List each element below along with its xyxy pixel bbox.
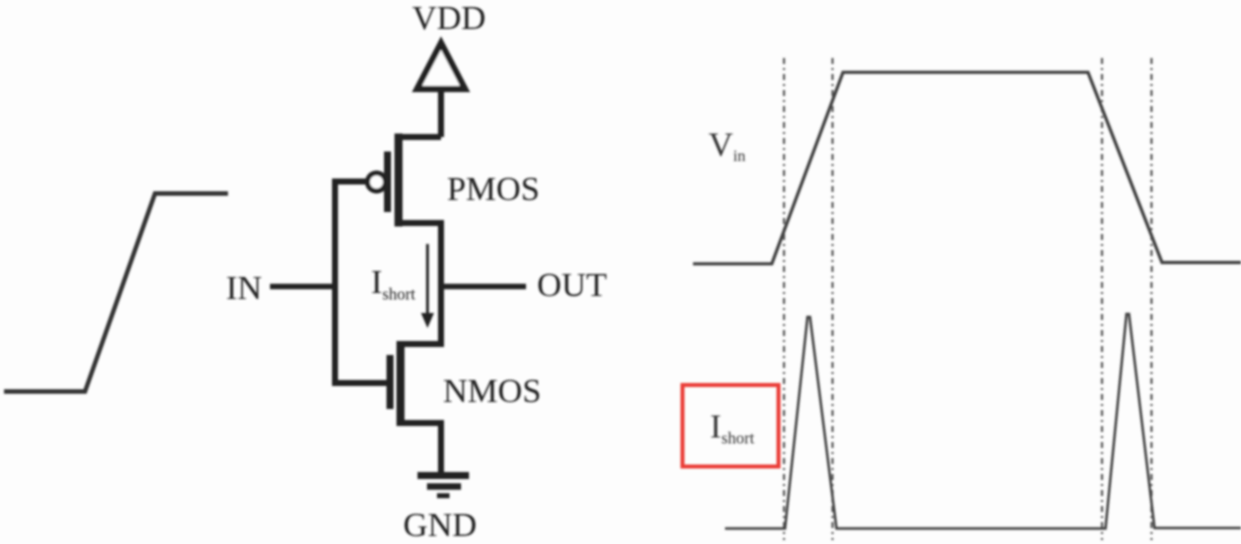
label I_short (waveform)	[710, 409, 755, 448]
wire: gate bus (PMOS gate to NMOS gate)	[335, 182, 387, 384]
transistor U2 NMOS: drain/channel/source	[401, 341, 442, 474]
wire OUT	[444, 284, 526, 290]
transistor U2 NMOS: gate bar	[387, 355, 394, 409]
dash-dot marker line 2	[831, 58, 833, 540]
waveform I_short	[725, 314, 1241, 529]
current arrow I_short (schematic)	[421, 244, 434, 328]
svg-text:Vin: Vin	[709, 127, 746, 166]
dash-dot marker line 1	[783, 58, 785, 540]
label GND	[403, 507, 477, 544]
label IN	[226, 270, 262, 307]
transistor U1 PMOS: gate bubble	[368, 173, 386, 191]
dash-dot marker line 4	[1150, 58, 1152, 540]
label VDD	[412, 0, 486, 37]
label NMOS	[443, 373, 541, 410]
wire IN	[270, 284, 335, 290]
label I_short (schematic)	[371, 264, 416, 304]
svg-text:VDD: VDD	[412, 0, 486, 37]
svg-text:NMOS: NMOS	[443, 373, 541, 410]
label V_in	[709, 127, 746, 166]
ground	[418, 476, 470, 496]
wire: VDD stem	[438, 88, 444, 137]
svg-text:IN: IN	[226, 270, 262, 307]
dash-dot marker line 3	[1101, 58, 1103, 540]
wire: output bus (PMOS drain to NMOS drain)	[438, 220, 444, 347]
svg-text:GND: GND	[403, 507, 477, 544]
input ramp waveform	[4, 194, 228, 392]
waveform V_in	[693, 72, 1241, 263]
red highlight box	[683, 385, 779, 467]
svg-text:PMOS: PMOS	[447, 171, 540, 208]
label OUT	[537, 267, 607, 304]
svg-text:Ishort: Ishort	[710, 409, 755, 448]
svg-text:OUT: OUT	[537, 267, 607, 304]
transistor U1 PMOS: gate bar	[384, 152, 391, 213]
power VDD symbol	[417, 43, 465, 89]
svg-text:Ishort: Ishort	[371, 264, 416, 304]
transistor U1 PMOS: source/channel/drain	[399, 134, 442, 227]
label PMOS	[447, 171, 540, 208]
